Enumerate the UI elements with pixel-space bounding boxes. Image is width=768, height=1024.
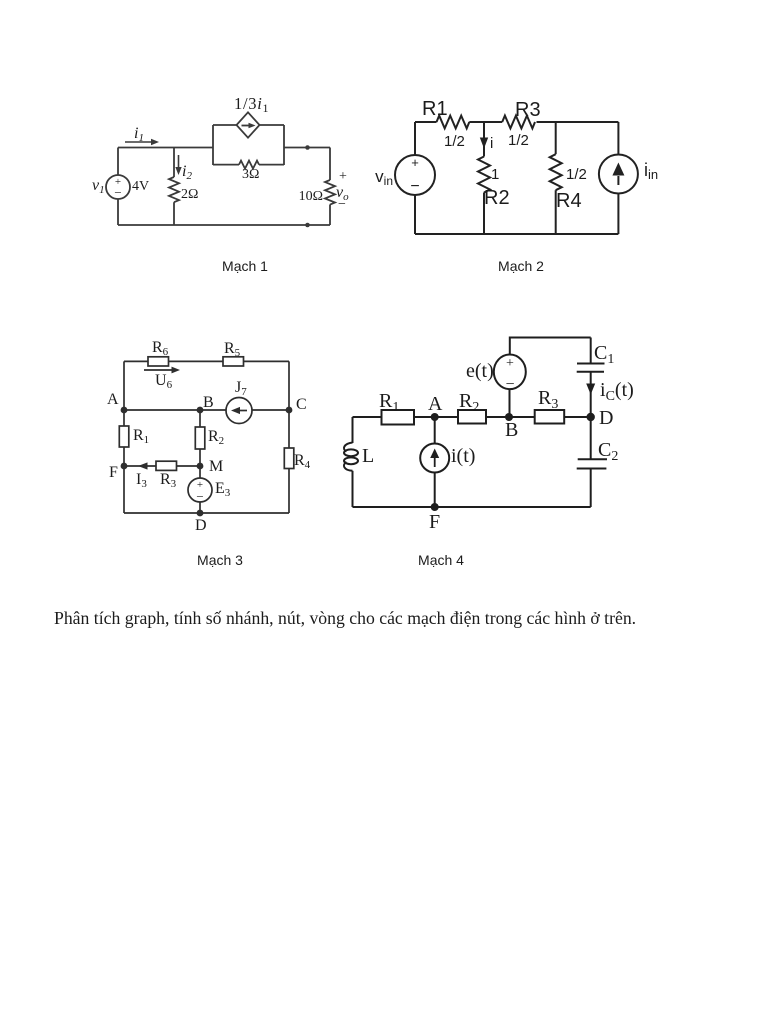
svg-text:C1: C1 (594, 342, 614, 367)
wire C2 down to bottom corner (590, 469, 592, 508)
wire 2ohm branch vertical bottom (173, 202, 175, 225)
svg-text:F: F (429, 511, 440, 533)
node dot top (305, 145, 310, 150)
resistor R1 box (119, 426, 129, 447)
resistor R1 box (382, 410, 415, 425)
current source i(t) circle (420, 444, 449, 473)
svg-text:+: + (411, 155, 419, 170)
box bottom edge left part (213, 164, 239, 166)
node F dot (431, 503, 439, 511)
svg-text:v1: v1 (92, 177, 105, 196)
svg-text:B: B (505, 419, 518, 441)
wire bottom horizontal (118, 224, 330, 226)
svg-text:D: D (599, 407, 613, 429)
resistor R3 box (156, 461, 177, 470)
capacitor C1 plates (577, 363, 605, 365)
svg-text:+: + (506, 356, 514, 371)
svg-text:i2: i2 (182, 163, 192, 182)
svg-text:U6: U6 (155, 372, 173, 391)
box top edge right part (260, 124, 285, 126)
resistor R6 box (148, 357, 169, 366)
svg-text:1/3i1: 1/3i1 (234, 94, 269, 115)
resistor R2 zigzag vertical (478, 157, 490, 193)
svg-text:R6: R6 (152, 339, 169, 358)
wire right vertical bottom (617, 194, 619, 235)
svg-text:−: − (338, 197, 346, 212)
wire top-left horizontal (118, 147, 213, 149)
source E3 circle (188, 478, 212, 502)
current arrow i2 (178, 155, 180, 170)
wire left vertical top (414, 122, 416, 155)
wire B down through R2 to E3 (199, 410, 201, 478)
svg-text:R2: R2 (484, 187, 510, 209)
svg-text:iin: iin (644, 160, 658, 182)
resistor R2 box (458, 410, 486, 424)
svg-text:R1: R1 (379, 390, 399, 415)
svg-text:R3: R3 (515, 99, 541, 121)
wire F-M horizontal (124, 465, 200, 467)
svg-text:3Ω: 3Ω (242, 167, 259, 182)
wire corner down to C1 (590, 338, 592, 364)
wire C1 to D with ic(t) arrow (590, 372, 592, 417)
svg-text:R1: R1 (133, 427, 149, 446)
arrow U6 (144, 369, 173, 371)
resistor R1 zigzag (437, 116, 470, 129)
voltage source u1 circle (106, 175, 130, 199)
wire left vertical bottom (414, 195, 416, 234)
svg-text:1/2: 1/2 (444, 133, 465, 150)
svg-text:iC(t): iC(t) (600, 379, 634, 404)
svg-text:B: B (203, 394, 214, 411)
resistor 2ohm zigzag (169, 177, 179, 202)
node D dot (587, 413, 595, 421)
node D dot (197, 510, 204, 517)
wire D down to C2 (590, 417, 592, 459)
wire bottom horizontal (415, 233, 618, 235)
resistor R2 box (195, 427, 205, 449)
resistor 3ohm zigzag (239, 161, 259, 169)
svg-text:1/2: 1/2 (566, 166, 587, 183)
node M dot (197, 463, 204, 470)
svg-text:−: − (505, 376, 514, 393)
svg-text:i(t): i(t) (451, 445, 475, 467)
wire e(t) top to corner (510, 338, 591, 355)
svg-text:M: M (209, 458, 223, 475)
svg-text:R4: R4 (294, 452, 311, 471)
arrow I3 (138, 462, 148, 469)
node A dot (121, 407, 128, 414)
resistor R5 box (223, 357, 244, 366)
svg-text:i1: i1 (134, 125, 144, 144)
svg-text:R3: R3 (160, 471, 177, 490)
resistor R4 zigzag vertical (550, 154, 562, 190)
wire left vertical top (352, 417, 354, 443)
svg-text:2Ω: 2Ω (181, 187, 198, 202)
svg-text:E3: E3 (215, 480, 231, 499)
node F dot (121, 463, 128, 470)
svg-text:I3: I3 (136, 471, 147, 490)
wire left vertical (bottom) (117, 199, 119, 225)
resistor R3 box (535, 410, 565, 424)
current source J7 circle (226, 398, 252, 424)
svg-text:−: − (196, 489, 203, 504)
box around dependent source and 3ohm (213, 125, 284, 165)
wire middle horizontal A-B (124, 409, 226, 411)
resistor R4 box (284, 448, 294, 469)
node A dot (431, 413, 439, 421)
svg-text:Mạch 1: Mạch 1 (222, 258, 268, 274)
wire R4 bottom (555, 190, 557, 234)
wire A down to i(t) (434, 417, 436, 444)
wire top horizontal (124, 360, 289, 362)
svg-text:R5: R5 (224, 340, 241, 359)
wire left vertical (top) (117, 148, 119, 176)
svg-text:F: F (109, 464, 118, 481)
svg-text:e(t): e(t) (466, 360, 494, 382)
node dot bottom (305, 223, 310, 228)
box bottom edge right part (259, 164, 284, 166)
resistor R3 zigzag (502, 116, 535, 129)
svg-text:R2: R2 (208, 428, 224, 447)
current arrow i1 (125, 141, 153, 143)
svg-text:+: + (339, 169, 347, 184)
box top edge left part (213, 124, 237, 126)
resistor 10ohm zigzag (325, 180, 335, 205)
svg-text:R3: R3 (538, 387, 558, 412)
node C dot (286, 407, 293, 414)
source e(t) circle (494, 355, 526, 390)
wire right vertical below 10ohm (329, 205, 331, 226)
arrow inside i(t) (434, 455, 436, 467)
wire R3 to right corner (537, 121, 619, 123)
svg-text:A: A (107, 391, 119, 408)
arrow inside diamond (242, 125, 251, 127)
svg-text:Mạch 2: Mạch 2 (498, 258, 544, 274)
svg-text:Mạch 4: Mạch 4 (418, 552, 464, 568)
svg-text:−: − (410, 178, 419, 195)
svg-text:A: A (428, 393, 443, 415)
wire top: left corner to R1 (415, 121, 437, 123)
arrow ic(t) (586, 384, 595, 395)
source iin circle (599, 155, 638, 194)
svg-text:4V: 4V (132, 179, 149, 194)
svg-text:1/2: 1/2 (508, 132, 529, 149)
wire R1 to R3 (469, 121, 502, 123)
wire right vertical (329, 148, 331, 181)
arrow inside iin (617, 176, 619, 185)
svg-text:i: i (490, 135, 493, 152)
capacitor C2 plates (578, 458, 607, 460)
wire middle horizontal J7-C (252, 409, 289, 411)
current arrow i (483, 130, 485, 139)
svg-text:Phân tích graph, tính số nhánh: Phân tích graph, tính số nhánh, nút, vòn… (54, 608, 636, 628)
svg-text:J7: J7 (235, 379, 247, 398)
svg-text:C2: C2 (598, 439, 618, 464)
svg-text:R4: R4 (556, 190, 582, 212)
source vin circle (395, 155, 435, 195)
svg-text:R1: R1 (422, 98, 448, 120)
node B dot (197, 407, 204, 414)
wire 2ohm branch vertical top (173, 148, 175, 178)
wire right vertical (288, 361, 290, 513)
wire main horizontal A-B-D (353, 416, 592, 418)
wire B up to e(t) (509, 389, 511, 417)
node B dot (505, 413, 513, 421)
svg-text:10Ω: 10Ω (299, 189, 323, 204)
wire R4 branch top (555, 122, 557, 154)
dependent source diamond (237, 112, 260, 137)
svg-text:R2: R2 (459, 390, 479, 415)
wire R2 branch top (483, 122, 485, 157)
arrow inside J7 (238, 410, 247, 412)
svg-text:L: L (362, 445, 374, 467)
svg-text:1: 1 (491, 166, 499, 183)
wire i(t) to F (434, 473, 436, 508)
wire bottom horizontal (124, 512, 289, 514)
svg-text:Mạch 3: Mạch 3 (197, 552, 243, 568)
wire left vertical (123, 361, 125, 513)
svg-text:D: D (195, 517, 207, 534)
wire R2 bottom (483, 193, 485, 235)
wire bottom horizontal (353, 506, 591, 508)
svg-text:vin: vin (375, 167, 393, 188)
wire left vertical bottom (352, 471, 354, 507)
wire E3 to D (199, 502, 201, 513)
svg-text:C: C (296, 396, 307, 413)
inductor L coil (344, 443, 353, 452)
wire right vertical top (617, 122, 619, 155)
svg-text:−: − (114, 185, 121, 200)
wire box-right to right corner (284, 147, 330, 149)
